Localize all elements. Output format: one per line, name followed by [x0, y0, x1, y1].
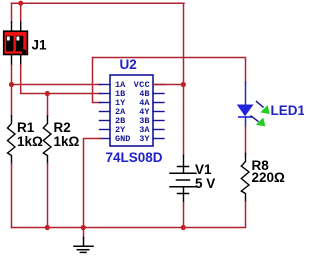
- switch J1 body: [4, 31, 28, 54]
- wire: ground stem red part: [83, 228, 85, 238]
- ground: [74, 238, 93, 253]
- node: junction VCC: [181, 82, 186, 87]
- U2 left pin stubs: [100, 85, 111, 139]
- LED1 anode lead: [245, 83, 247, 105]
- IC U2 74LS08D body: [110, 75, 153, 146]
- svg-text:5 V: 5 V: [195, 176, 215, 191]
- wire: R1 to ground rail: [11, 164, 13, 228]
- resistor R2: [43, 116, 51, 164]
- LED1 triangle: [237, 105, 254, 117]
- battery V1 top lead: [183, 156, 185, 173]
- battery V1 plates: [170, 167, 196, 194]
- LED1 emission arrow 2: [251, 116, 265, 126]
- U2 pin names right: [134, 80, 151, 144]
- svg-text:220Ω: 220Ω: [252, 170, 286, 185]
- LED1 emission arrow 1: [257, 102, 270, 115]
- node: junction ground symbol: [81, 225, 86, 230]
- resistor R1: [8, 116, 16, 164]
- svg-text:74LS08D: 74LS08D: [106, 150, 163, 165]
- wire: top power rail: [12, 2, 185, 4]
- svg-text:1kΩ: 1kΩ: [54, 134, 80, 149]
- wire: J1 left top lead: [11, 3, 13, 22]
- svg-text:J1: J1: [32, 38, 48, 53]
- wire: S1 net down from J1 left: [11, 65, 13, 116]
- resistor R8: [241, 154, 249, 202]
- switch J1 bottom pins: [12, 55, 21, 65]
- wire: S2 net down from J1 right: [21, 65, 101, 94]
- wire: R8 to ground rail: [12, 202, 246, 228]
- wire: gate output 1Y to LED: [93, 58, 246, 103]
- switch J1 top pins: [12, 22, 21, 31]
- node: junction S2: [45, 91, 50, 96]
- wire: LED to R8: [245, 126, 247, 154]
- LED1 cathode lead: [245, 118, 247, 126]
- svg-text:R2: R2: [54, 120, 71, 135]
- wire: battery to ground rail: [183, 203, 185, 228]
- wire: S1 to pin 1A: [12, 84, 102, 86]
- svg-text:R1: R1: [17, 120, 35, 135]
- svg-text:GND: GND: [115, 134, 130, 144]
- svg-text:1kΩ: 1kΩ: [17, 134, 43, 149]
- wire: J1 right top lead: [20, 3, 22, 22]
- wire: GND pin to ground column: [84, 139, 102, 228]
- svg-text:3Y: 3Y: [139, 134, 150, 144]
- wire: S2 down to R2: [47, 94, 49, 117]
- node: junction S1: [9, 82, 14, 87]
- svg-text:LED1: LED1: [271, 103, 305, 118]
- battery V1 bottom lead: [183, 187, 185, 203]
- node: junction top: [18, 1, 23, 6]
- svg-text:V1: V1: [195, 162, 212, 177]
- wire: VCC pin to rail: [153, 84, 184, 86]
- wire: R2 to ground rail: [47, 164, 49, 228]
- node: junction R2 ground: [45, 225, 50, 230]
- U2 right pin stubs: [153, 85, 164, 139]
- node: junction battery ground: [181, 225, 186, 230]
- U2 pin names left: [115, 80, 130, 144]
- LED1 cathode bar: [239, 116, 252, 118]
- svg-text:U2: U2: [120, 57, 137, 72]
- wire: VCC vertical to battery: [183, 3, 185, 155]
